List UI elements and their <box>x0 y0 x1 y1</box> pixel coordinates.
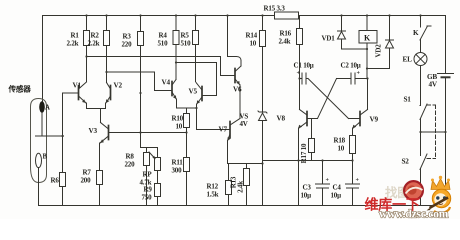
transistor V9 <box>349 110 368 129</box>
svg-text:R2: R2 <box>91 32 100 40</box>
svg-text:+: + <box>356 178 360 184</box>
capacitor C4 <box>346 161 360 206</box>
electrode A <box>39 101 45 136</box>
wire V5 emitter to V7 base <box>197 108 231 130</box>
svg-text:V7: V7 <box>219 126 228 134</box>
svg-text:2.2k: 2.2k <box>88 40 100 48</box>
capacitor C2 <box>337 73 368 84</box>
svg-text:R3: R3 <box>123 33 132 41</box>
svg-text:+: + <box>357 71 361 77</box>
svg-text:V6: V6 <box>233 86 242 94</box>
wire cross coupling C1 to V9 base <box>308 79 349 119</box>
svg-text:V5: V5 <box>189 88 198 96</box>
svg-text:220: 220 <box>125 161 136 169</box>
svg-text:750: 750 <box>142 194 153 202</box>
zener diode VS <box>258 111 267 206</box>
capacitor C1 <box>300 73 309 84</box>
svg-text:R4: R4 <box>159 32 168 40</box>
relay coil K <box>359 16 377 79</box>
svg-text:200: 200 <box>81 177 92 185</box>
electrode B <box>36 153 42 205</box>
resistor R10 <box>184 114 190 158</box>
resistor R3 <box>138 16 144 148</box>
svg-text:R6: R6 <box>51 177 60 185</box>
svg-text:S2: S2 <box>402 158 410 166</box>
svg-text:10μ: 10μ <box>301 192 312 200</box>
transistor V2 <box>106 83 111 104</box>
diode VD2 <box>367 16 394 69</box>
svg-text:R12: R12 <box>207 183 219 191</box>
svg-text:510: 510 <box>181 40 192 48</box>
svg-text:10μ: 10μ <box>331 192 342 200</box>
watermark mascot <box>427 176 451 213</box>
capacitor C3 <box>316 161 330 206</box>
svg-text:R11: R11 <box>172 159 184 167</box>
resistor R4 <box>173 16 179 80</box>
svg-text:R1: R1 <box>71 32 80 40</box>
svg-text:RP: RP <box>143 171 153 179</box>
svg-text:R16: R16 <box>280 30 292 38</box>
svg-text:S1: S1 <box>404 96 412 104</box>
svg-text:220: 220 <box>122 41 133 49</box>
wire V3 emitter to R7 <box>99 143 101 171</box>
dashed linkage S1 S2 <box>427 105 436 159</box>
svg-text:C4: C4 <box>333 184 342 192</box>
lamp EL <box>414 53 427 106</box>
svg-text:R10: R10 <box>172 115 184 123</box>
svg-text:2.2k: 2.2k <box>67 40 79 48</box>
svg-text:V8: V8 <box>277 115 286 123</box>
switch S1 <box>420 104 446 132</box>
relay contact K <box>420 16 431 53</box>
svg-text:V3: V3 <box>89 127 98 135</box>
svg-text:10: 10 <box>176 123 183 131</box>
wire sensor tap <box>36 135 64 137</box>
svg-text:VD1: VD1 <box>322 35 336 43</box>
resistor R5 <box>193 16 199 82</box>
resistor R7 <box>97 171 103 206</box>
svg-text:K: K <box>364 34 371 43</box>
svg-text:K: K <box>413 29 419 37</box>
wire bottom ground bus <box>39 205 446 207</box>
wire V6 emitter to V7 collector <box>239 85 241 119</box>
svg-text:2.4k: 2.4k <box>237 181 245 193</box>
svg-text:V2: V2 <box>114 82 123 90</box>
resistor R13 <box>244 164 250 206</box>
svg-text:V9: V9 <box>370 116 379 124</box>
wire V2 collector to V4 base coupling <box>107 72 173 91</box>
wire R4 node to V5 base <box>176 63 217 96</box>
transistor V1 <box>79 82 87 103</box>
svg-text:R18: R18 <box>334 137 346 145</box>
svg-text:510: 510 <box>158 40 169 48</box>
resistor R6 <box>60 173 66 206</box>
transistor V7 <box>228 119 241 141</box>
resistor R12 <box>226 164 232 206</box>
svg-text:传感器: 传感器 <box>8 84 32 94</box>
resistor R16 <box>297 16 303 79</box>
wire V8 collector <box>299 79 301 110</box>
svg-text:R7: R7 <box>83 169 92 177</box>
svg-text:R15 3.3: R15 3.3 <box>264 5 286 13</box>
transistor V6 <box>235 66 241 85</box>
svg-text:1.5k: 1.5k <box>207 191 219 199</box>
transistor V4 <box>172 80 176 100</box>
svg-text:C1 10μ: C1 10μ <box>294 62 314 70</box>
resistor R18 <box>350 128 356 161</box>
svg-text:300: 300 <box>172 167 183 175</box>
svg-text:4V: 4V <box>240 120 248 128</box>
wire cross coupling C2 to V8 base <box>318 79 337 119</box>
wire V9 collector <box>367 79 369 110</box>
wire V1 base <box>63 93 79 173</box>
transistor V8 <box>298 110 317 129</box>
svg-text:10: 10 <box>250 40 257 48</box>
svg-text:R5: R5 <box>181 32 190 40</box>
resistor R1 <box>84 16 90 82</box>
wire V1 V2 emitter rail <box>87 103 106 123</box>
battery GB <box>438 74 454 78</box>
svg-text:V1: V1 <box>73 82 82 90</box>
switch S2 <box>420 132 427 206</box>
svg-text:V4: V4 <box>162 79 171 87</box>
resistor R15 <box>275 12 299 19</box>
svg-text:+: + <box>326 178 330 184</box>
resistor R8 <box>141 148 150 206</box>
svg-text:C2 10μ: C2 10μ <box>341 62 361 70</box>
svg-text:4V: 4V <box>429 80 438 88</box>
wire multivibrator 4V rail <box>263 160 353 162</box>
wire V6 collector hook to bus <box>228 16 242 67</box>
wire V3 base line <box>109 132 187 134</box>
svg-text:B: B <box>43 154 48 161</box>
wire top supply bus <box>43 16 446 102</box>
svg-text:A: A <box>45 105 50 112</box>
wire right supply rail <box>445 16 447 206</box>
transistor V5 <box>196 83 202 105</box>
wire V8 emitter <box>298 128 300 206</box>
potentiometer RP <box>147 148 161 184</box>
svg-text:EL: EL <box>403 56 413 64</box>
svg-text:R8: R8 <box>126 153 135 161</box>
watermark dzsc <box>365 176 451 221</box>
resistor R2 <box>104 16 110 83</box>
transistor V3 <box>100 123 109 144</box>
svg-text:C3: C3 <box>303 184 312 192</box>
diode VD1 <box>338 16 368 50</box>
watermark red seal logo <box>404 181 423 200</box>
svg-text:R14: R14 <box>246 32 258 40</box>
svg-text:VD2: VD2 <box>375 44 383 58</box>
wire V7 emitter node <box>228 141 263 164</box>
resistor R9 <box>155 184 161 206</box>
svg-text:www.dzsc.com: www.dzsc.com <box>379 209 449 220</box>
svg-text:10: 10 <box>338 145 345 153</box>
resistor R14 <box>260 16 266 112</box>
wire V4 V5 emitter rail <box>177 99 197 113</box>
svg-text:R9: R9 <box>144 186 153 194</box>
svg-text:2.4k: 2.4k <box>279 38 291 46</box>
resistor R11 <box>184 158 190 206</box>
resistor R17 <box>309 119 315 161</box>
sensor tube 传感器 <box>31 99 47 183</box>
wire V1 collector to V6 base coupling <box>87 57 236 76</box>
